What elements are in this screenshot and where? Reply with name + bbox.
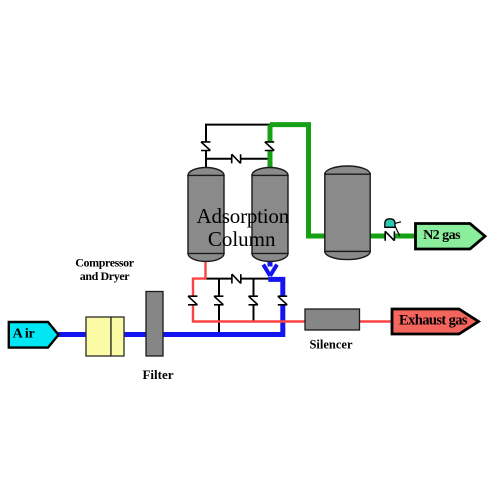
svg-text:N2 gas: N2 gas [423,228,461,243]
blue feed pipe from air inlet [57,279,283,334]
valve V7 on branch C [249,296,258,305]
N2 buffer tank (right cylinder) [325,166,370,260]
air inlet arrow [9,322,59,348]
valve V9 product pressure regulator on green outlet [385,222,401,241]
wire: black riser above column 1 [205,125,207,170]
wire: black top manifold [205,124,270,126]
compressor and dryer (yellow boxes) [86,317,124,356]
wire: black equalization pipe between column tops [206,158,270,160]
red exhaust pipe from column 1 to silencer [193,260,393,322]
valve V4 on lower manifold [232,274,241,283]
N2 gas outlet arrow [416,224,486,250]
blue feed arrowhead at column 2 inlet [263,265,277,276]
svg-text:Adsorption: Adsorption [197,204,290,228]
svg-text:Column: Column [208,227,276,251]
regulator dome actuator [385,219,395,228]
valve V6 on branch B [214,296,223,305]
adsorption column 1 (left cylinder) [188,168,224,262]
valve V2 on green riser above column 2 [265,142,274,151]
svg-text:Compressor: Compressor [75,256,135,270]
svg-text:and Dryer: and Dryer [80,269,130,283]
svg-text:A ir: A ir [13,327,35,342]
wire: black branch B to feed pipe [218,279,220,332]
valve V8 on blue riser [278,296,287,305]
filter box [146,292,163,357]
adsorption column 2 (right cylinder) [252,168,288,262]
green product gas pipe from column 2 to buffer tank and N2 outlet [270,125,415,236]
silencer box [305,309,360,330]
valve V5 on red branch [188,296,197,305]
valve V1 on column-1 riser [201,142,210,151]
wire: black lower manifold [206,278,271,280]
blue feed nozzle stub under column 2 [268,259,273,267]
svg-text:Filter: Filter [142,367,173,382]
wire: black branch C to exhaust line [253,279,255,322]
svg-text:Exhaust gas: Exhaust gas [399,312,468,328]
exhaust gas outlet arrow [392,309,479,334]
valve V3 on equalization pipe [232,154,241,163]
svg-text:Silencer: Silencer [309,338,352,352]
